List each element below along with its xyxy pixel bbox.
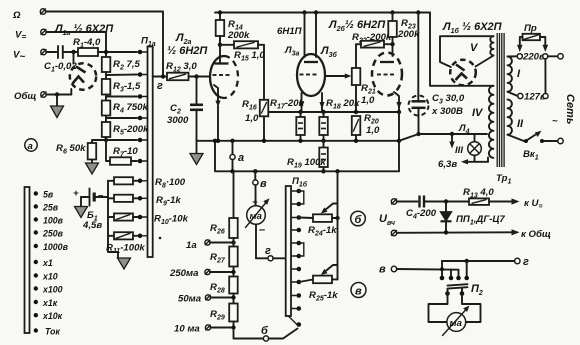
svg-text:6,3в: 6,3в	[438, 159, 457, 170]
jumper contacts 5-6	[299, 243, 304, 256]
svg-text:Сеть: Сеть	[564, 94, 576, 124]
svg-text:1,0: 1,0	[366, 125, 380, 136]
svg-text:R1-4,0: R1-4,0	[73, 37, 101, 50]
svg-text:III: III	[455, 145, 463, 156]
wire V= to divider top	[46, 32, 106, 57]
node a	[230, 139, 244, 174]
svg-text:1,0: 1,0	[361, 95, 375, 106]
tube U3a (L3a) envelope	[297, 54, 325, 96]
tube U2a cathode	[214, 85, 221, 143]
wire tap R4-R5	[106, 116, 137, 123]
wire k U= output	[489, 198, 543, 211]
resistor R8 100	[108, 177, 186, 190]
tube U3a grid	[300, 74, 317, 76]
transformer Tr1 core	[497, 33, 504, 167]
terminal Uvch top	[391, 199, 396, 204]
resistor R29	[210, 304, 238, 322]
tube U2a (L2a) envelope	[210, 56, 238, 98]
tube U3b (L3b) envelope	[372, 44, 402, 95]
tube U3a cathode arrows	[299, 93, 325, 112]
svg-text:R10-10k: R10-10k	[154, 214, 189, 227]
svg-text:х100: х100	[42, 285, 63, 295]
wire tap R3-R4	[106, 95, 137, 101]
annotation circle b	[351, 211, 366, 226]
svg-text:R2 7,5: R2 7,5	[113, 59, 141, 72]
resistor R7 10	[106, 140, 138, 165]
ground bus	[197, 140, 400, 142]
svg-text:1а: 1а	[186, 240, 197, 251]
node junction ground tap	[55, 92, 59, 96]
svg-text:в: в	[260, 178, 267, 190]
wire battery bus	[108, 181, 118, 258]
svg-text:250ма: 250ма	[169, 268, 199, 279]
resistor R4 750k	[102, 101, 149, 116]
node g junction	[153, 74, 167, 92]
tap 127v	[508, 59, 549, 103]
tube U1b to winding V	[476, 56, 494, 67]
tube U3a anode wires	[305, 13, 317, 58]
wire pot common	[337, 171, 339, 279]
wire Obshch to tube	[46, 94, 71, 96]
wire C1 to R1	[64, 51, 78, 53]
svg-text:R25-1k: R25-1k	[309, 290, 338, 303]
capacitor C2 3000	[167, 77, 203, 141]
annotation circle a	[25, 139, 37, 152]
switch P2 bar	[448, 283, 483, 297]
svg-text:200k: 200k	[397, 29, 420, 40]
svg-text:г: г	[523, 256, 529, 268]
node junction at tube branch	[71, 50, 75, 54]
tap 10ma	[174, 322, 236, 335]
resistor R18	[319, 110, 328, 143]
wire V~ to C1	[46, 51, 56, 53]
winding IV	[472, 86, 494, 158]
svg-text:в: в	[379, 264, 386, 276]
svg-text:Общ: Общ	[14, 91, 36, 102]
output line	[213, 139, 399, 174]
winding V	[470, 36, 494, 55]
tap 220v	[508, 52, 564, 63]
tap 1a	[186, 240, 236, 251]
meter M2 uA	[443, 306, 470, 336]
tube U1a (L1a half 6X2P diode)	[70, 52, 96, 95]
resistor R22 200k	[352, 32, 395, 68]
svg-text:а: а	[238, 152, 244, 164]
tube U1b (L1b)	[450, 60, 476, 86]
svg-text:R17-20k: R17-20k	[270, 98, 305, 111]
svg-text:R5-200k: R5-200k	[113, 124, 149, 137]
heater line	[399, 132, 487, 141]
svg-text:R7-10: R7-10	[113, 146, 138, 159]
resistor R3 1,5	[102, 79, 141, 95]
resistor R26	[210, 171, 238, 238]
rail junction dots	[218, 10, 421, 14]
resistor R23 200k	[388, 13, 420, 45]
node g wire	[256, 245, 286, 261]
svg-text:5в: 5в	[43, 190, 54, 200]
wire P1b contact stubs	[288, 191, 299, 325]
svg-text:х1к: х1к	[42, 298, 58, 308]
terminal Omega	[12, 9, 46, 21]
terminal V=	[15, 29, 46, 41]
rectifier B+ wire	[430, 13, 494, 86]
capacitor C3 30,0	[409, 13, 465, 137]
resistor R28	[210, 277, 238, 295]
svg-text:II: II	[517, 118, 524, 130]
tube U3b cathode arrow	[394, 92, 402, 114]
svg-text:R8·100: R8·100	[155, 177, 186, 190]
svg-text:200k: 200k	[227, 30, 250, 41]
resistor R11 100k	[106, 232, 145, 255]
capacitor C1 0,02	[44, 46, 77, 74]
ground under R6	[86, 160, 99, 175]
winding I	[508, 56, 522, 91]
label Set mains	[552, 94, 576, 127]
potentiometer R25 1k	[299, 265, 338, 303]
wire k Obshch output	[397, 229, 551, 240]
svg-text:50ма: 50ма	[178, 294, 202, 305]
fuse plug arrows	[517, 37, 548, 52]
svg-text:3000: 3000	[167, 115, 189, 126]
node v	[253, 169, 267, 206]
svg-text:R19 100k: R19 100k	[287, 157, 326, 170]
svg-text:R11-100k: R11-100k	[106, 243, 145, 256]
meter M1 uA	[246, 197, 270, 258]
svg-text:~: ~	[552, 116, 558, 127]
svg-text:б: б	[355, 214, 363, 226]
resistor R21 1,0	[325, 68, 376, 114]
svg-text:1,0: 1,0	[245, 113, 259, 124]
svg-text:х10: х10	[42, 272, 58, 282]
svg-text:+: +	[73, 188, 79, 199]
battery B1 4,5v	[73, 188, 108, 231]
wire cathode output down	[397, 112, 401, 171]
capacitor C4 200	[406, 196, 437, 221]
stray dot	[159, 237, 162, 240]
resistor R5 200k	[102, 122, 149, 137]
cathode line	[268, 111, 399, 113]
ground battery chain	[118, 258, 131, 269]
svg-text:–: –	[98, 190, 104, 201]
svg-text:Ток: Ток	[45, 327, 60, 337]
svg-text:R9-1k: R9-1k	[156, 195, 181, 208]
svg-text:250в: 250в	[42, 229, 64, 239]
wire g to P2	[442, 259, 515, 263]
wire 6,3v	[438, 158, 488, 171]
ground under battery	[75, 197, 88, 218]
wire C4 to R13	[425, 199, 469, 203]
resistor R1 4,0	[73, 37, 101, 56]
switch P1a contacts	[138, 50, 143, 238]
B+ rail	[215, 12, 430, 14]
resistor R15 1,0	[218, 41, 266, 100]
switch P1b wafer bar	[286, 186, 291, 316]
resistor R2 7,5	[102, 57, 141, 72]
resistor R20 1,0	[352, 113, 380, 143]
node g terminal P2	[515, 256, 529, 268]
switch P2 contacts	[440, 261, 469, 280]
svg-text:г: г	[157, 80, 163, 92]
potentiometer R24 1k	[299, 204, 340, 238]
wire tap R2-R3	[106, 72, 137, 79]
range contacts	[34, 191, 38, 332]
svg-text:4,5в: 4,5в	[82, 220, 102, 231]
annotation circle v	[351, 283, 366, 298]
resistor R16 1,0	[242, 99, 268, 143]
label L2a 1/2 6N2P	[167, 32, 208, 57]
resistor R6 50k	[56, 140, 106, 160]
resistor R17	[296, 110, 305, 143]
wire tap R5 bottom	[104, 137, 137, 142]
terminal V~	[13, 49, 46, 62]
svg-text:б: б	[261, 325, 269, 337]
diode PP1 DG-Ts7	[441, 202, 506, 233]
node v terminal P2	[379, 264, 397, 276]
svg-text:х 300В: х 300В	[431, 106, 463, 117]
resistor R13 4,0	[463, 187, 494, 205]
svg-text:а: а	[28, 141, 34, 152]
tube U2a anode	[215, 36, 229, 64]
svg-text:R4 750k: R4 750k	[113, 102, 149, 115]
resistor R10 10k	[108, 213, 189, 226]
switch Vk1	[508, 131, 564, 162]
svg-text:R3-1,5: R3-1,5	[113, 81, 141, 94]
wire v to P2	[397, 268, 459, 271]
resistor R19 100k	[287, 141, 328, 174]
wire Omega rail to P1a	[46, 12, 163, 77]
switch P1b contacts	[297, 189, 302, 327]
svg-text:R24-1k: R24-1k	[308, 225, 337, 238]
tube U2a grid	[213, 74, 230, 76]
jumper contacts 1-2	[299, 191, 304, 204]
svg-text:1000в: 1000в	[43, 242, 69, 252]
svg-text:R18 20k: R18 20k	[326, 98, 360, 111]
svg-text:R12 3,0: R12 3,0	[166, 61, 197, 74]
svg-text:220в: 220в	[522, 52, 545, 63]
winding II	[508, 99, 525, 134]
wire meter loop	[429, 294, 481, 323]
node junction divider top	[104, 50, 108, 54]
svg-text:Пр: Пр	[524, 23, 537, 34]
resistor R27	[210, 238, 238, 267]
svg-text:х10к: х10к	[42, 311, 63, 321]
terminal Obshch	[14, 91, 46, 102]
tap 50ma	[178, 294, 236, 305]
ground under Obshch	[51, 95, 64, 118]
svg-text:R15 1,0: R15 1,0	[234, 50, 265, 63]
svg-text:х1: х1	[42, 258, 53, 268]
svg-text:C4-200: C4-200	[406, 208, 437, 221]
wire P1a contact stubs	[140, 52, 148, 236]
switch P1a range wafer bar	[25, 187, 30, 333]
resistor R9 1k	[108, 195, 181, 208]
svg-text:V=: V=	[15, 30, 26, 42]
tube U3a plate	[304, 61, 318, 63]
filament takeoff arrow	[449, 134, 463, 156]
svg-text:г: г	[265, 245, 271, 257]
resistor R12 3,0	[166, 61, 197, 80]
svg-text:100в: 100в	[43, 216, 64, 226]
svg-text:–: –	[259, 224, 265, 236]
wire R12 to grid	[189, 74, 211, 78]
svg-text:6Н1П: 6Н1П	[277, 26, 303, 37]
svg-text:R13 4,0: R13 4,0	[463, 187, 494, 200]
svg-text:C3 30,0: C3 30,0	[432, 93, 465, 106]
svg-text:10 ма: 10 ма	[174, 324, 200, 335]
tube U1b rectifier loop	[440, 36, 494, 67]
wire to C4	[397, 201, 418, 203]
svg-text:к Общ: к Общ	[521, 229, 551, 240]
tap 250ma	[169, 267, 236, 280]
ground under C2	[190, 141, 203, 165]
svg-text:+: +	[252, 197, 258, 208]
svg-text:Ω: Ω	[12, 10, 21, 21]
wire R1 to divider	[98, 51, 137, 53]
svg-text:в: в	[355, 286, 362, 298]
fuse Pr	[523, 23, 541, 40]
switch P1a wafer bar	[148, 47, 153, 258]
switch P2 lower contacts	[445, 288, 464, 296]
node b wire	[234, 325, 298, 341]
svg-text:R6 50k: R6 50k	[56, 143, 86, 156]
svg-text:½ 6Н2П: ½ 6Н2П	[167, 45, 208, 57]
svg-text:ПП1,ДГ-Ц7: ПП1,ДГ-Ц7	[456, 214, 505, 227]
terminal Uvch bottom	[391, 230, 396, 235]
lamp L4	[458, 123, 481, 162]
range labels	[42, 190, 69, 337]
resistor R14 200k	[216, 13, 250, 45]
svg-text:25в: 25в	[42, 203, 59, 213]
svg-text:IV: IV	[472, 107, 484, 119]
